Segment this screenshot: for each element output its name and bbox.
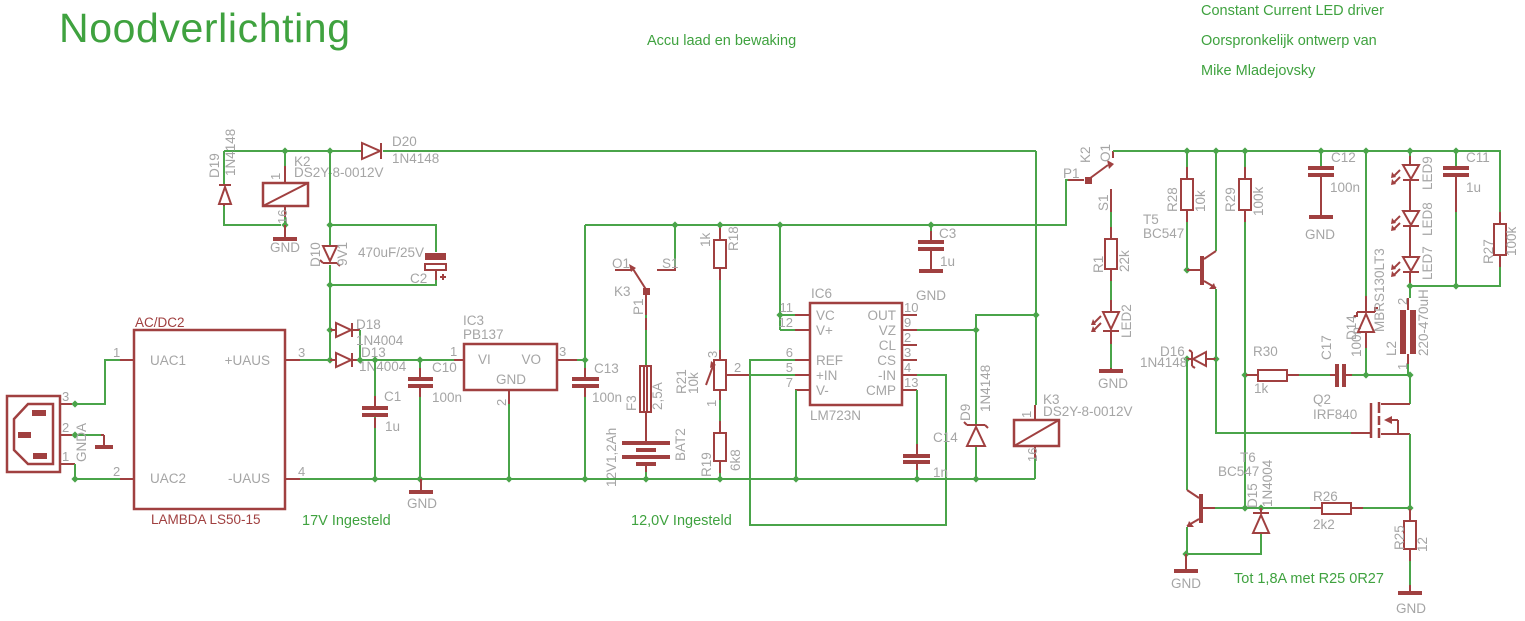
capacitor C1 1u xyxy=(362,360,401,479)
svg-text:1: 1 xyxy=(268,173,283,180)
svg-text:K2: K2 xyxy=(1078,146,1093,163)
svg-text:12: 12 xyxy=(1415,537,1430,552)
svg-text:C13: C13 xyxy=(594,361,619,376)
wire D14 row to L2 xyxy=(1366,374,1410,376)
node C3 top xyxy=(927,221,934,228)
svg-text:3: 3 xyxy=(559,344,566,359)
wire IC3 GND to rail xyxy=(508,404,510,479)
svg-text:6k8: 6k8 xyxy=(728,449,743,471)
wire D16 to T6 collector xyxy=(1186,359,1188,490)
svg-text:22k: 22k xyxy=(1117,250,1132,272)
svg-text:D13: D13 xyxy=(361,345,386,360)
svg-text:C17: C17 xyxy=(1319,335,1334,360)
svg-text:2: 2 xyxy=(1395,298,1410,305)
node rail R29 xyxy=(1241,147,1248,154)
svg-text:R19: R19 xyxy=(699,452,714,477)
node pin3 xyxy=(71,400,78,407)
svg-text:16: 16 xyxy=(1025,448,1040,462)
svg-text:UAC1: UAC1 xyxy=(150,353,186,368)
capacitor C10 100n xyxy=(408,360,462,479)
svg-text:C12: C12 xyxy=(1331,150,1356,165)
ground GND main xyxy=(407,479,437,511)
svg-text:Oorspronkelijk ontwerp van: Oorspronkelijk ontwerp van xyxy=(1201,33,1377,49)
node rail LED9 xyxy=(1406,147,1413,154)
svg-text:D20: D20 xyxy=(392,134,417,149)
node gnd IC3 xyxy=(505,475,512,482)
svg-text:Noodverlichting: Noodverlichting xyxy=(59,5,351,51)
node rail D14 xyxy=(1362,147,1369,154)
schottky D14 MBRS130LT3 xyxy=(1344,151,1387,375)
node C10 top xyxy=(416,356,423,363)
ground GND under LED2 xyxy=(1098,368,1128,391)
svg-text:R1: R1 xyxy=(1091,256,1106,273)
svg-text:GND: GND xyxy=(1171,576,1201,591)
svg-text:D14: D14 xyxy=(1344,315,1359,340)
LED LED9 xyxy=(1391,151,1435,211)
capacitor C13 100n xyxy=(572,360,622,479)
ground GND under T6 xyxy=(1171,554,1201,591)
wire battery rail B xyxy=(585,180,1068,225)
svg-text:17V Ingesteld: 17V Ingesteld xyxy=(302,513,391,529)
svg-text:F3: F3 xyxy=(624,395,639,411)
svg-text:CMP: CMP xyxy=(866,383,896,398)
wire rail A down to relay K3 xyxy=(1035,151,1037,405)
svg-text:UAC2: UAC2 xyxy=(150,471,186,486)
resistor R28 10k xyxy=(1165,151,1208,270)
svg-text:BAT2: BAT2 xyxy=(673,428,688,461)
svg-text:V+: V+ xyxy=(816,323,833,338)
svg-text:10k: 10k xyxy=(1193,190,1208,212)
svg-text:O1: O1 xyxy=(612,256,630,271)
wire C2 branch top xyxy=(330,225,436,252)
svg-text:OUT: OUT xyxy=(868,308,897,323)
node D13 anode xyxy=(326,356,333,363)
svg-text:1N4004: 1N4004 xyxy=(1260,459,1275,507)
svg-text:IRF840: IRF840 xyxy=(1313,407,1357,422)
capacitor C12 100n xyxy=(1308,150,1360,216)
wire P1 to fuse xyxy=(645,315,647,366)
op-amp IC6 LM723N xyxy=(779,286,919,423)
svg-text:11: 11 xyxy=(780,300,794,315)
svg-text:-IN: -IN xyxy=(878,368,896,383)
wire inlet pin3 to UAC1 xyxy=(75,360,120,404)
wire T6 base row xyxy=(1215,507,1322,509)
svg-text:1: 1 xyxy=(62,449,69,464)
ground GND under C3 xyxy=(916,271,946,303)
zener D10 9V1 xyxy=(308,242,350,330)
svg-text:DS2Y-8-0012V: DS2Y-8-0012V xyxy=(1043,404,1133,419)
node source R26 xyxy=(1406,504,1413,511)
wire rail B to VC V+ xyxy=(780,225,795,330)
svg-text:LED2: LED2 xyxy=(1119,304,1134,338)
capacitor C17 100n xyxy=(1319,327,1366,387)
node VZ branch xyxy=(972,326,979,333)
resistor R27 100k xyxy=(1481,224,1519,264)
svg-text:BC547: BC547 xyxy=(1218,464,1259,479)
svg-text:D18: D18 xyxy=(356,317,381,332)
svg-text:VO: VO xyxy=(521,352,541,367)
node C14 bottom xyxy=(913,475,920,482)
svg-text:O1: O1 xyxy=(1098,144,1113,162)
node rail C12 xyxy=(1317,147,1324,154)
svg-text:C11: C11 xyxy=(1466,150,1490,165)
resistor R1 22k xyxy=(1091,212,1132,312)
capacitor C3 1u xyxy=(918,225,956,270)
svg-text:5: 5 xyxy=(786,360,793,375)
zener D16 1N4148 xyxy=(1140,344,1216,370)
wire between D18 and D13 xyxy=(329,330,331,360)
node L2 Q2 drain xyxy=(1406,371,1413,378)
svg-text:D15: D15 xyxy=(1245,483,1260,508)
wire C2 branch bottom xyxy=(330,280,436,285)
node base D15 xyxy=(1257,504,1264,511)
node gnd C13 xyxy=(581,475,588,482)
svg-text:1N4148: 1N4148 xyxy=(1140,355,1187,370)
wire ground rail xyxy=(300,478,1035,480)
inductor L2 220-470uH xyxy=(1384,286,1431,375)
node T5 base xyxy=(1183,266,1190,273)
transistor T5 BC547 xyxy=(1143,151,1216,359)
diode D20 1N4148 xyxy=(362,134,439,166)
node C2 bottom xyxy=(326,281,333,288)
svg-text:GND: GND xyxy=(1305,227,1335,242)
svg-text:CS: CS xyxy=(877,353,896,368)
svg-text:100n: 100n xyxy=(592,390,622,405)
LED LED2 xyxy=(1091,304,1134,368)
svg-text:7: 7 xyxy=(786,375,793,390)
svg-text:R30: R30 xyxy=(1253,344,1278,359)
svg-text:1k: 1k xyxy=(1254,381,1269,396)
svg-text:BC547: BC547 xyxy=(1143,226,1184,241)
svg-text:-UAUS: -UAUS xyxy=(228,471,270,486)
svg-text:1: 1 xyxy=(1395,363,1410,370)
svg-text:LAMBDA LS50-15: LAMBDA LS50-15 xyxy=(151,512,261,527)
svg-text:VC: VC xyxy=(816,308,835,323)
wire rail A left segment xyxy=(224,150,362,152)
svg-text:16: 16 xyxy=(275,210,290,224)
diode D15 1N4004 xyxy=(1186,459,1275,554)
svg-text:2: 2 xyxy=(62,420,69,435)
svg-text:R27: R27 xyxy=(1481,239,1496,264)
svg-text:C3: C3 xyxy=(939,226,956,241)
wire rail A after D20 xyxy=(383,150,1036,152)
ground GND under R25 xyxy=(1396,585,1426,616)
wire row 360 to IC3 xyxy=(360,359,454,361)
svg-text:R18: R18 xyxy=(726,226,741,251)
relay K2 DS2Y-8-0012V coil xyxy=(263,151,384,225)
svg-text:PB137: PB137 xyxy=(463,327,504,342)
node R18 top xyxy=(716,221,723,228)
svg-text:2k2: 2k2 xyxy=(1313,517,1335,532)
resistor R19 6k8 xyxy=(699,400,743,479)
node C1 top xyxy=(371,356,378,363)
svg-text:C1: C1 xyxy=(384,389,401,404)
svg-text:S1: S1 xyxy=(662,256,679,271)
node rail T5 xyxy=(1212,147,1219,154)
svg-text:R26: R26 xyxy=(1313,489,1338,504)
wire rail A drop at x330 xyxy=(329,151,331,245)
wire battery rail drop xyxy=(584,225,586,360)
node rail C11 xyxy=(1452,147,1459,154)
node VO C13 xyxy=(581,356,588,363)
node rail R28 xyxy=(1183,147,1190,154)
svg-text:3: 3 xyxy=(298,345,305,360)
svg-text:C10: C10 xyxy=(432,360,457,375)
node T6 emitter gnd xyxy=(1182,550,1189,557)
node C2 top branch xyxy=(326,221,333,228)
node D9 anode xyxy=(972,475,979,482)
node rail A x330 xyxy=(326,147,333,154)
node gnd C10 xyxy=(416,475,423,482)
svg-text:100k: 100k xyxy=(1251,186,1266,216)
svg-text:+UAUS: +UAUS xyxy=(225,353,270,368)
connector X1 AC inlet xyxy=(7,389,75,472)
wire +UAUS to D13 xyxy=(300,359,330,361)
svg-text:T5: T5 xyxy=(1143,212,1159,227)
ground GNDA xyxy=(74,423,113,462)
svg-text:GND: GND xyxy=(270,240,300,255)
node pin2 xyxy=(71,431,78,438)
svg-text:13: 13 xyxy=(904,375,918,390)
svg-text:P1: P1 xyxy=(1063,166,1080,181)
pin leads red overlay xyxy=(375,167,1500,561)
svg-text:100n: 100n xyxy=(432,390,462,405)
svg-text:GND: GND xyxy=(407,496,437,511)
capacitor C14 1n xyxy=(903,430,958,480)
regulator IC3 PB137 xyxy=(450,313,577,406)
svg-text:1: 1 xyxy=(1019,411,1034,418)
node pin1 xyxy=(71,475,78,482)
svg-text:12: 12 xyxy=(779,315,793,330)
svg-text:1u: 1u xyxy=(385,419,400,434)
diode D19 1N4148 xyxy=(207,129,281,225)
LED LED7 xyxy=(1391,246,1435,286)
wire inlet pin2 to GNDA xyxy=(75,434,101,436)
resistor R26 2k2 xyxy=(1313,489,1410,532)
wire REF loop to -IN xyxy=(750,360,946,525)
node VC branch xyxy=(776,311,783,318)
svg-text:VI: VI xyxy=(478,352,491,367)
svg-text:1u: 1u xyxy=(940,254,955,269)
wire row 286 xyxy=(1410,255,1500,286)
svg-text:LED9: LED9 xyxy=(1420,156,1435,190)
ground GND under K2 xyxy=(270,225,300,255)
wire IC3 VO to C13 xyxy=(577,359,585,361)
svg-text:LED8: LED8 xyxy=(1420,202,1435,236)
svg-text:1N4004: 1N4004 xyxy=(359,359,407,374)
svg-text:K3: K3 xyxy=(614,284,631,299)
svg-text:C2: C2 xyxy=(410,271,427,286)
svg-text:9: 9 xyxy=(904,315,911,330)
capacitor C11 1u xyxy=(1443,150,1490,286)
transistor Q2 IRF840 xyxy=(1313,375,1410,508)
svg-text:12,0V Ingesteld: 12,0V Ingesteld xyxy=(631,513,732,529)
svg-text:1N4148: 1N4148 xyxy=(978,365,993,412)
svg-text:GNDA: GNDA xyxy=(74,423,89,462)
svg-text:1N4148: 1N4148 xyxy=(392,151,439,166)
diode D18 1N4004 xyxy=(330,317,404,360)
svg-text:4: 4 xyxy=(904,360,911,375)
svg-text:10k: 10k xyxy=(686,372,701,394)
node S1 K3 xyxy=(671,221,678,228)
ground GND under C12 xyxy=(1305,217,1335,242)
svg-text:100k: 100k xyxy=(1504,226,1519,256)
node D16 right xyxy=(1212,355,1219,362)
potentiometer R21 10k xyxy=(674,350,750,407)
node K2 coil top xyxy=(281,147,288,154)
node D14 anode xyxy=(1362,371,1369,378)
fuse F3 2,5A xyxy=(624,366,665,412)
svg-text:D9: D9 xyxy=(958,404,973,421)
battery BAT2 12V1,2Ah xyxy=(604,412,688,487)
svg-text:9V1: 9V1 xyxy=(335,242,350,266)
svg-text:1k: 1k xyxy=(698,232,713,247)
switch K3 contact xyxy=(612,225,679,315)
wire rail A right xyxy=(1113,151,1500,224)
node R30 tap xyxy=(1241,371,1248,378)
resistor R25 12 xyxy=(1392,508,1430,585)
node C11 bottom xyxy=(1452,282,1459,289)
wire CMP to C14 xyxy=(916,390,918,454)
switch K2 contact xyxy=(1063,144,1114,212)
svg-text:GND: GND xyxy=(916,288,946,303)
node base R29 xyxy=(1241,504,1248,511)
svg-text:L2: L2 xyxy=(1384,341,1399,356)
svg-text:Tot 1,8A met R25 0R27: Tot 1,8A met R25 0R27 xyxy=(1234,571,1384,587)
node V- ground xyxy=(792,475,799,482)
svg-text:GND: GND xyxy=(1396,601,1426,616)
svg-text:4: 4 xyxy=(298,464,305,479)
svg-text:IC3: IC3 xyxy=(463,313,484,328)
svg-text:1u: 1u xyxy=(1466,180,1481,195)
power supply AC/DC2 LAMBDA LS50-15 xyxy=(113,315,305,527)
node K2 coil bottom xyxy=(281,221,288,228)
svg-text:6: 6 xyxy=(786,345,793,360)
wire T5 emitter to gate xyxy=(1216,359,1351,433)
svg-text:100n: 100n xyxy=(1330,180,1360,195)
resistor R29 100k xyxy=(1223,151,1266,508)
svg-text:1: 1 xyxy=(113,345,120,360)
svg-text:Q2: Q2 xyxy=(1313,392,1331,407)
svg-text:VZ: VZ xyxy=(879,323,896,338)
node gnd C1 xyxy=(371,475,378,482)
svg-text:3: 3 xyxy=(705,351,720,358)
svg-text:3: 3 xyxy=(62,389,69,404)
svg-text:1: 1 xyxy=(450,344,457,359)
svg-text:IC6: IC6 xyxy=(811,286,832,301)
zener D9 1N4148 xyxy=(958,365,993,479)
svg-text:DS2Y-8-0012V: DS2Y-8-0012V xyxy=(294,165,384,180)
svg-text:S1: S1 xyxy=(1096,194,1111,211)
wire V- to ground rail xyxy=(795,390,797,479)
svg-text:R29: R29 xyxy=(1223,187,1238,212)
node R19 bottom xyxy=(716,475,723,482)
resistor R30 1k xyxy=(1245,344,1335,396)
svg-text:D19: D19 xyxy=(207,153,222,178)
svg-text:+IN: +IN xyxy=(816,368,837,383)
svg-text:Accu laad en bewaking: Accu laad en bewaking xyxy=(647,33,796,49)
svg-text:D10: D10 xyxy=(308,242,323,267)
svg-text:R25: R25 xyxy=(1392,525,1407,550)
relay K3 DS2Y-8-0012V coil xyxy=(1014,392,1133,479)
svg-text:AC/DC2: AC/DC2 xyxy=(135,315,185,330)
svg-text:3: 3 xyxy=(904,345,911,360)
svg-text:GND: GND xyxy=(496,372,526,387)
svg-text:2: 2 xyxy=(904,330,911,345)
svg-text:P1: P1 xyxy=(631,298,646,315)
wire wiper to +IN xyxy=(750,374,795,376)
capacitor C2 470uF/25V xyxy=(358,245,446,286)
svg-text:2,5A: 2,5A xyxy=(650,382,665,410)
node D18 left xyxy=(326,326,333,333)
svg-text:Constant Current LED driver: Constant Current LED driver xyxy=(1201,3,1384,19)
svg-text:220-470uH: 220-470uH xyxy=(1416,289,1431,356)
svg-text:C14: C14 xyxy=(933,430,958,445)
svg-text:1N4148: 1N4148 xyxy=(223,129,238,176)
svg-text:2: 2 xyxy=(734,360,741,375)
LED LED8 xyxy=(1391,202,1435,257)
svg-text:R28: R28 xyxy=(1165,187,1180,212)
svg-text:MBRS130LT3: MBRS130LT3 xyxy=(1372,248,1387,332)
svg-text:V-: V- xyxy=(816,383,829,398)
svg-text:LED7: LED7 xyxy=(1420,246,1435,280)
svg-text:GND: GND xyxy=(1098,376,1128,391)
transistor T6 BC547 xyxy=(1187,450,1259,554)
resistor R18 1k xyxy=(698,225,741,350)
svg-text:T6: T6 xyxy=(1240,450,1256,465)
svg-text:LM723N: LM723N xyxy=(810,408,861,423)
svg-text:Mike Mladejovsky: Mike Mladejovsky xyxy=(1201,63,1316,79)
node battery minus xyxy=(642,475,649,482)
svg-text:2: 2 xyxy=(113,464,120,479)
svg-text:REF: REF xyxy=(816,353,843,368)
svg-text:470uF/25V: 470uF/25V xyxy=(358,245,424,260)
node D16 left xyxy=(1183,355,1190,362)
svg-text:1: 1 xyxy=(704,400,719,407)
svg-text:1n: 1n xyxy=(933,465,948,480)
node D13 cathode xyxy=(356,356,363,363)
diode D13 1N4004 xyxy=(330,345,407,374)
svg-text:2: 2 xyxy=(494,399,509,406)
node IC6 supply tap xyxy=(776,221,783,228)
wire VZ net xyxy=(917,315,1036,424)
wire inlet pin1 down and to UAC2 xyxy=(75,464,120,479)
svg-text:CL: CL xyxy=(879,338,897,353)
node relay feed xyxy=(1032,311,1039,318)
node LED string bottom xyxy=(1406,282,1413,289)
